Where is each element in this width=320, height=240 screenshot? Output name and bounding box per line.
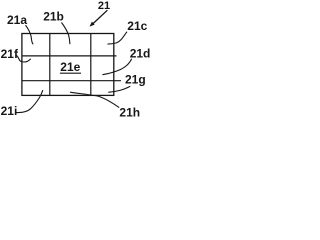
leader 21g xyxy=(108,86,130,92)
svg-text:21: 21 xyxy=(98,0,110,12)
svg-text:21f: 21f xyxy=(1,47,19,61)
leader 21a xyxy=(26,25,34,44)
leader 21b xyxy=(62,23,70,45)
grid internal vertical line 2 xyxy=(90,34,92,96)
svg-text:21c: 21c xyxy=(127,19,147,33)
svg-text:21d: 21d xyxy=(130,47,150,61)
arrow 21 xyxy=(93,10,107,23)
leader 21d xyxy=(102,59,131,75)
svg-text:21g: 21g xyxy=(125,73,146,87)
grid internal horizontal line 1 (extends past right edge) xyxy=(22,55,117,57)
leader 21c xyxy=(108,32,128,44)
svg-text:21i: 21i xyxy=(1,104,18,118)
grid internal horizontal line 2 (extends past right edge) xyxy=(22,80,121,82)
grid outer rectangle (element 21) xyxy=(22,34,114,96)
leader 21i xyxy=(15,90,43,112)
leader 21h xyxy=(70,92,119,107)
svg-text:21e: 21e xyxy=(60,60,80,74)
svg-text:21a: 21a xyxy=(7,13,27,27)
grid internal vertical line 1 xyxy=(49,34,51,96)
leader 21f xyxy=(16,55,31,62)
svg-text:21b: 21b xyxy=(43,10,64,24)
svg-text:21h: 21h xyxy=(119,105,140,119)
